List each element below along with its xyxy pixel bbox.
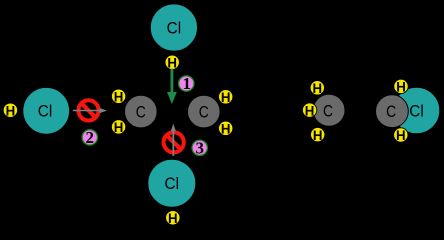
chlorine atom Cl (bottom) [148, 159, 196, 207]
gray attack arrow (left, pointing right) [73, 108, 107, 113]
svg-text:H: H [168, 211, 178, 227]
svg-text:H: H [396, 128, 406, 144]
hydrogen atom H (top, of HCl) [165, 55, 179, 71]
svg-text:C: C [136, 103, 146, 122]
gray attack arrow (bottom, pointing up) [171, 124, 176, 156]
hydrogen atom H (product chloromethyl, top) [394, 79, 408, 95]
chlorine atom Cl (left, of HCl) [23, 87, 70, 134]
svg-text:C: C [199, 103, 209, 122]
carbon atom C (ethene, right) [188, 95, 221, 128]
step badge 3 [192, 139, 207, 158]
hydrogen atom H (ethene, lower right) [219, 121, 233, 137]
hydrogen atom H (product methyl, left) [302, 103, 316, 119]
hydrogen atom H (product methyl, top) [310, 81, 324, 97]
chlorine atom Cl (top, of HCl) [150, 4, 197, 51]
svg-text:Cl: Cl [38, 101, 53, 120]
hydrogen atom H (product methyl, bottom) [311, 127, 325, 143]
svg-text:H: H [313, 128, 323, 144]
carbon atom C (product chloromethyl) [376, 95, 409, 128]
svg-text:H: H [6, 103, 16, 119]
step badge 2 [82, 128, 97, 147]
hydrogen atom H (ethene, upper right) [219, 90, 233, 106]
svg-text:H: H [396, 80, 406, 96]
green reaction arrow (step 1, downward) [167, 69, 177, 104]
svg-text:C: C [386, 102, 396, 121]
svg-text:H: H [313, 81, 323, 97]
svg-text:C: C [323, 101, 333, 120]
svg-text:2: 2 [86, 128, 95, 147]
hydrogen atom H (ethene, upper left) [111, 89, 125, 105]
svg-text:1: 1 [183, 74, 192, 93]
hydrogen atom H (product chloromethyl, bottom) [394, 128, 408, 144]
step badge 1 [179, 74, 194, 93]
carbon atom C (ethene, left) [125, 95, 158, 128]
svg-text:H: H [221, 90, 231, 106]
svg-text:H: H [114, 90, 124, 106]
carbon atom C (product methyl) [313, 94, 345, 126]
svg-text:H: H [114, 120, 124, 136]
svg-text:Cl: Cl [409, 101, 424, 120]
svg-text:Cl: Cl [165, 174, 180, 193]
hydrogen atom H (ethene, lower left) [111, 120, 125, 136]
hydrogen atom H (left, of HCl) [3, 103, 17, 119]
svg-text:Cl: Cl [167, 18, 182, 37]
svg-text:H: H [221, 122, 231, 138]
svg-text:H: H [305, 103, 315, 119]
hydrogen atom H (bottom) [166, 211, 180, 227]
chlorine atom Cl (product chloromethyl) [393, 87, 440, 134]
svg-text:3: 3 [195, 139, 204, 158]
prohibition sign (bottom) [164, 132, 184, 152]
prohibition sign (left) [78, 100, 98, 120]
